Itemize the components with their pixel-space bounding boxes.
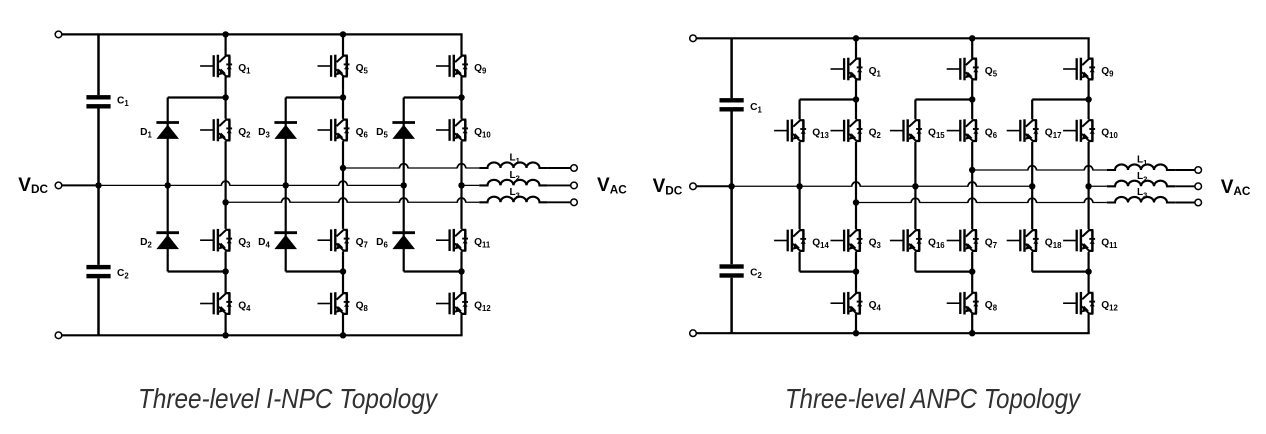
wire right leg2 node B to Q bottom [971, 252, 973, 293]
wire left leg1 top rail to Q top [225, 34, 227, 55]
capacitor C1 (left) [86, 95, 110, 108]
wire left leg2 Q bottom to bottom rail [342, 314, 344, 335]
terminal right DC- input [690, 330, 697, 337]
wire left node A link leg1 [168, 96, 226, 98]
junction right leg1 output tap [853, 199, 859, 205]
wire right clamp1 lower column a [798, 186, 800, 229]
terminal left AC output 1 [571, 165, 578, 172]
wire left node A link leg3 [404, 96, 462, 98]
junction right leg3 output tap [1085, 183, 1091, 189]
inductor L1 left [479, 162, 547, 168]
wire right leg2 node A junction wire [971, 142, 973, 229]
wire right clamp2 lower column b [914, 252, 916, 272]
terminal left DC- input [55, 332, 62, 339]
junction left bottom rail leg2 [340, 332, 346, 338]
transistor Q11 [436, 229, 468, 252]
diode D5 [392, 123, 415, 139]
svg-text:Three-level ANPC Topology: Three-level ANPC Topology [785, 383, 1082, 414]
junction right bottom rail leg1 [853, 330, 859, 336]
wire left leg2 node A junction wire [342, 141, 344, 229]
junction left leg2 node B [340, 268, 346, 274]
wire left top DC rail [62, 33, 463, 35]
transistor Q1 [200, 55, 232, 78]
wire right phase line to L1 [972, 169, 1107, 171]
wire right clamp2 upper column b [914, 142, 916, 186]
inductor L3 right [1107, 197, 1175, 203]
wire left L3 to output terminal [548, 201, 571, 203]
transistor Q8 [947, 292, 979, 315]
wire right L2 to output terminal [1175, 185, 1195, 187]
junction left leg3 node A [458, 94, 464, 100]
wire right node B link leg3 [1032, 271, 1088, 273]
junction right leg1 node A [853, 96, 859, 102]
wire left L2 to output terminal [548, 184, 571, 186]
wire right clamp3 lower column b [1031, 252, 1033, 272]
transistor Q2 [831, 119, 863, 142]
transistor Q5 [947, 58, 979, 81]
wire right phase line to L2 [1089, 185, 1107, 187]
wire right leg3 Q bottom to bottom rail [1087, 314, 1089, 334]
terminal left AC output 2 [571, 182, 578, 189]
wire left node B link leg1 [168, 270, 226, 272]
junction left neutral at capacitor [95, 182, 101, 188]
transistor Q10 [1063, 119, 1095, 142]
transistor Q14 [774, 229, 806, 252]
wire left bottom DC rail [62, 334, 463, 336]
inductor L1 right [1107, 164, 1175, 170]
capacitor C2 (left) [86, 265, 110, 278]
junction left leg3 node B [458, 268, 464, 274]
wire right leg3 node A junction wire [1087, 142, 1089, 229]
wire left leg1 node B to Q bottom [225, 252, 227, 294]
wire right leg1 Q bottom to bottom rail [855, 314, 857, 334]
junction left neutral clamp 3 [401, 182, 407, 188]
transistor Q10 [436, 119, 468, 142]
junction left neutral clamp 2 [283, 182, 289, 188]
diode D2 [156, 233, 179, 249]
transistor Q7 [947, 229, 979, 252]
wire right leg2 top rail to Q top [971, 38, 973, 58]
wire left capacitor column middle [97, 109, 100, 265]
wire left DC midpoint link [62, 184, 99, 186]
wire left node B link leg2 [286, 270, 343, 272]
junction right leg2 output tap [969, 167, 975, 173]
svg-text:Three-level I-NPC Topology: Three-level I-NPC Topology [138, 383, 439, 414]
wire right bottom DC rail [696, 332, 1089, 334]
wire right top DC rail [696, 37, 1089, 39]
wire right clamp1 upper column a [798, 100, 800, 120]
wire right L1 to output terminal [1175, 169, 1195, 171]
junction right leg2 node A [969, 96, 975, 102]
wire right leg1 top rail to Q top [855, 38, 857, 58]
junction left bottom rail leg1 [222, 332, 228, 338]
terminal left DC mid input [55, 182, 62, 189]
wire left clamp column 1 [167, 98, 169, 272]
junction left top rail leg1 [222, 31, 228, 37]
junction right neutral clamp 3 [1029, 183, 1035, 189]
transistor Q13 [774, 119, 806, 142]
wire left leg3 node B to Q bottom [460, 252, 462, 294]
junction left neutral clamp 1 [165, 182, 171, 188]
wire left leg3 node A junction wire [460, 141, 462, 229]
diode D6 [392, 233, 415, 249]
transistor Q3 [200, 229, 232, 252]
transistor Q7 [318, 229, 350, 252]
junction left top rail leg2 [340, 31, 346, 37]
wire right node A link leg2 [915, 98, 972, 100]
wire left leg3 top rail to Q top [460, 34, 462, 55]
transistor Q6 [947, 119, 979, 142]
wire right leg3 top rail to Q top [1087, 38, 1089, 58]
wire right clamp2 lower column a [914, 186, 916, 229]
terminal left DC+ input [55, 31, 62, 38]
wire right leg3 Q top to node A [1087, 79, 1089, 119]
capacitor C1 (right) [720, 98, 744, 111]
terminal left AC output 3 [571, 199, 578, 206]
wire right leg2 Q top to node A [971, 79, 973, 119]
diode D4 [274, 233, 297, 249]
transistor Q16 [890, 229, 922, 252]
wire left leg1 Q bottom to bottom rail [225, 314, 227, 335]
transistor Q1 [831, 58, 863, 81]
wire right leg1 node A junction wire [855, 142, 857, 229]
diode D3 [274, 123, 297, 139]
junction right neutral clamp 1 [796, 183, 802, 189]
inductor L3 left [479, 197, 547, 203]
transistor Q2 [200, 119, 232, 142]
transistor Q12 [1063, 292, 1095, 315]
junction left leg2 output tap [340, 165, 346, 171]
wire left neutral rail [99, 184, 404, 186]
wire left capacitor column upper [97, 34, 100, 95]
wire left leg2 Q top to node A [342, 76, 344, 118]
wire right node A link leg1 [800, 98, 856, 100]
wire right clamp3 upper column b [1031, 142, 1033, 186]
wire left clamp column 3 [403, 98, 405, 272]
wire left leg3 Q bottom to bottom rail [460, 314, 462, 335]
junction left leg2 node A [340, 94, 346, 100]
junction right top rail leg1 [853, 35, 859, 41]
wire right node B link leg1 [800, 271, 856, 273]
wire right capacitor column lower [730, 278, 733, 334]
junction right top rail leg2 [969, 35, 975, 41]
wire left phase line to L1 [343, 167, 479, 169]
wire left leg1 node A junction wire [225, 141, 227, 229]
transistor Q6 [318, 119, 350, 142]
junction right neutral clamp 2 [912, 183, 918, 189]
wire right leg3 node B to Q bottom [1087, 252, 1089, 293]
transistor Q3 [831, 229, 863, 252]
terminal right AC output 3 [1195, 199, 1202, 206]
wire right node A link leg3 [1032, 98, 1088, 100]
wire left phase line to L2 [462, 184, 480, 186]
wire right clamp1 lower column b [798, 252, 800, 272]
junction right bottom rail leg2 [969, 330, 975, 336]
wire left node A link leg2 [286, 96, 343, 98]
wire right capacitor column middle [730, 112, 733, 265]
inductor L2 right [1107, 181, 1175, 187]
wire left clamp column 2 [285, 98, 287, 272]
transistor Q15 [890, 119, 922, 142]
junction right leg3 node B [1085, 268, 1091, 274]
wire right capacitor column upper [730, 38, 733, 98]
transistor Q4 [831, 292, 863, 315]
wire left node B link leg3 [404, 270, 462, 272]
wire right clamp3 lower column a [1031, 186, 1033, 229]
junction right leg3 node A [1085, 96, 1091, 102]
transistor Q8 [318, 292, 350, 315]
junction right leg2 node B [969, 268, 975, 274]
wire right leg2 Q bottom to bottom rail [971, 314, 973, 334]
wire right clamp3 upper column a [1031, 100, 1033, 120]
transistor Q17 [1007, 119, 1039, 142]
junction left leg1 node A [222, 94, 228, 100]
wire left phase line to L3 [226, 201, 480, 203]
wire right neutral rail [732, 185, 1033, 187]
wire right leg1 node B to Q bottom [855, 252, 857, 293]
wire left L1 to output terminal [548, 167, 571, 169]
terminal right AC output 2 [1195, 183, 1202, 190]
junction left leg1 node B [222, 268, 228, 274]
junction left leg1 output tap [222, 199, 228, 205]
wire left leg3 Q top to node A [460, 76, 462, 118]
junction right neutral at capacitor [728, 183, 734, 189]
wire right L3 to output terminal [1175, 202, 1195, 204]
wire right DC midpoint link [696, 185, 731, 187]
capacitor C2 (right) [720, 264, 744, 277]
wire right clamp2 upper column a [914, 100, 916, 120]
wire left leg1 Q top to node A [225, 76, 227, 118]
terminal right DC+ input [690, 35, 697, 42]
junction right leg1 node B [853, 268, 859, 274]
transistor Q18 [1007, 229, 1039, 252]
transistor Q12 [436, 292, 468, 315]
transistor Q9 [436, 55, 468, 78]
wire left leg2 top rail to Q top [342, 34, 344, 55]
wire right clamp1 upper column b [798, 142, 800, 186]
transistor Q4 [200, 292, 232, 315]
wire left leg2 node B to Q bottom [342, 252, 344, 294]
diode D1 [156, 123, 179, 139]
wire right node B link leg2 [915, 271, 972, 273]
inductor L2 left [479, 180, 547, 186]
terminal right AC output 1 [1195, 167, 1202, 174]
terminal right DC mid input [690, 183, 697, 190]
transistor Q5 [318, 55, 350, 78]
transistor Q9 [1063, 58, 1095, 81]
wire left capacitor column lower [97, 278, 100, 335]
junction left leg3 output tap [458, 182, 464, 188]
wire right phase line to L3 [856, 202, 1107, 204]
wire right leg1 Q top to node A [855, 79, 857, 119]
transistor Q11 [1063, 229, 1095, 252]
